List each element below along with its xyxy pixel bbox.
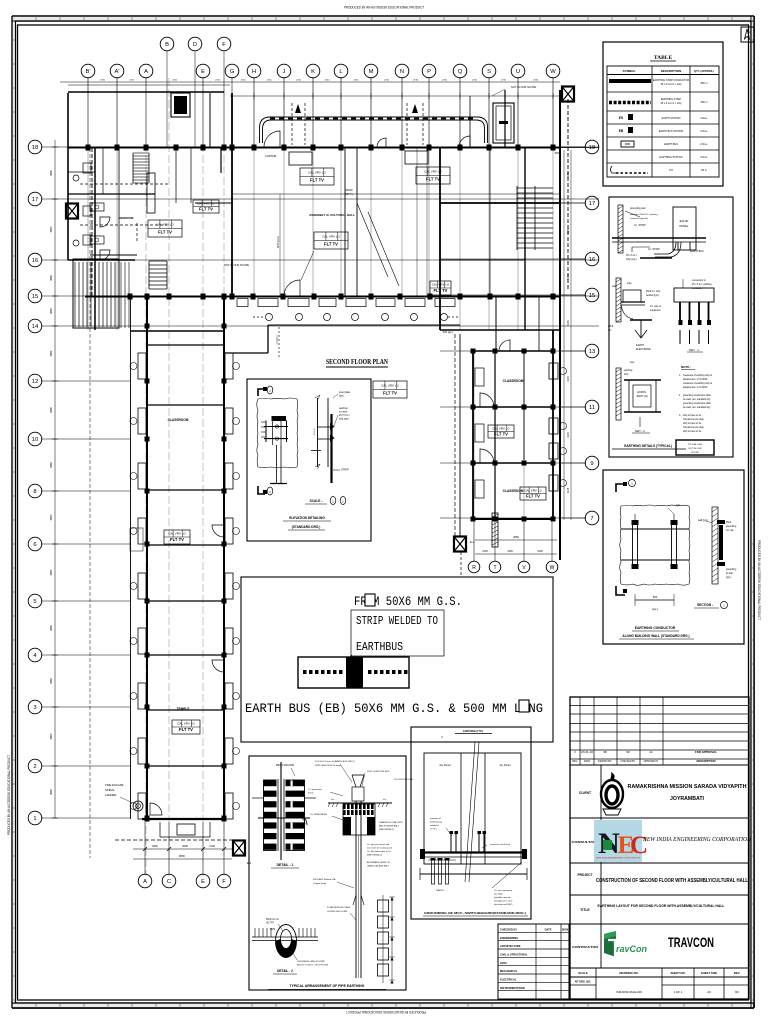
svg-text:conductor: conductor [692, 287, 702, 290]
svg-text:A': A' [115, 69, 120, 75]
svg-text:C: C [167, 879, 171, 885]
svg-text:strip (typ.): strip (typ.) [339, 418, 349, 421]
svg-text:11: 11 [589, 405, 595, 411]
svg-text:HVAC: HVAC [500, 961, 507, 965]
svg-text:2740: 2740 [533, 80, 539, 82]
svg-text:(portable concrete: (portable concrete [494, 896, 512, 899]
svg-text:W: W [550, 565, 555, 571]
svg-text:1500: 1500 [554, 152, 560, 155]
svg-text:(AP. T.): (AP. T.) [345, 193, 353, 196]
svg-text:JOINT (E): JOINT (E) [636, 394, 648, 398]
svg-text:checked as per drgs.: checked as per drgs. [683, 426, 705, 429]
svg-text:(typ.): (typ.) [339, 395, 344, 398]
svg-text:25 x 6 mm G.I. strip: 25 x 6 mm G.I. strip [661, 102, 683, 105]
svg-text:3860: 3860 [49, 569, 53, 575]
svg-text:16: 16 [32, 258, 38, 264]
svg-text:FLT TV: FLT TV [383, 391, 397, 396]
svg-text:CIVIL & STRUCTURAL: CIVIL & STRUCTURAL [500, 953, 528, 957]
svg-text:3145: 3145 [567, 376, 570, 382]
svg-text:CAL VRV LO: CAL VRV LO [308, 171, 326, 175]
svg-text:checked as per drgs.: checked as per drgs. [683, 418, 705, 421]
svg-text:(4) TYP.: (4) TYP. [266, 923, 275, 925]
svg-text:weld bar: weld bar [339, 407, 348, 410]
svg-text:[SEE DETAIL-1]: [SEE DETAIL-1] [379, 828, 394, 831]
svg-text:THICKNESS (MS) GI STRIP: THICKNESS (MS) GI STRIP [297, 961, 325, 963]
svg-text:NOT IN OUR SCOPE: NOT IN OUR SCOPE [511, 85, 536, 89]
svg-text:2740: 2740 [296, 80, 302, 82]
svg-text:DESCRIPTION: DESCRIPTION [696, 759, 715, 763]
svg-text:3860: 3860 [49, 462, 53, 468]
svg-text:strip: strip [627, 282, 632, 285]
svg-text:EARTH: EARTH [636, 344, 644, 347]
svg-text:EARTH BUS: EARTH BUS [690, 250, 704, 253]
svg-text:2740: 2740 [129, 80, 135, 82]
svg-text:ravCon: ravCon [616, 944, 648, 954]
svg-text:2740: 2740 [241, 80, 247, 82]
svg-text:CHECKED BY: CHECKED BY [500, 928, 517, 932]
svg-text:3105: 3105 [507, 550, 513, 553]
svg-text:G.I. WIRE MESH: G.I. WIRE MESH [310, 814, 327, 816]
svg-text:5: 5 [33, 599, 36, 605]
svg-text:EQUIP: EQUIP [680, 219, 689, 223]
svg-text:300 DEEP 300mm DIA: 300 DEEP 300mm DIA [313, 878, 336, 881]
svg-text:3145: 3145 [567, 487, 570, 493]
svg-text:8050: 8050 [179, 854, 185, 858]
svg-text:strip: strip [624, 373, 629, 376]
svg-text:EARTHING STRIP CONDUCTOR: EARTHING STRIP CONDUCTOR [653, 79, 689, 82]
svg-text:50x6 mm GI: 50x6 mm GI [266, 919, 279, 921]
svg-text:50 NB MEDIUM CLASS: 50 NB MEDIUM CLASS [327, 906, 351, 909]
svg-text:DRAWN BY.: DRAWN BY. [598, 760, 612, 763]
svg-text:NEW INDIA ENGINEERING CORPORAT: NEW INDIA ENGINEERING CORPORATION [642, 837, 752, 843]
svg-text:CONSTRUCTION OF SECOND FLOO: CONSTRUCTION OF SECOND FLOOR WITH ASSEMB… [596, 878, 748, 884]
svg-text:STRIP: STRIP [341, 468, 349, 472]
svg-text:R0: R0 [735, 990, 739, 994]
svg-text:H: H [252, 69, 256, 75]
svg-text:SCALE -: SCALE - [310, 499, 323, 503]
svg-text:SYMBOL: SYMBOL [623, 69, 636, 73]
svg-text:FLT TV: FLT TV [434, 288, 448, 293]
svg-text:SIGN: SIGN [562, 928, 568, 932]
svg-text:(connect to earth bus): (connect to earth bus) [490, 843, 511, 846]
svg-text:3: 3 [33, 705, 36, 711]
svg-text:(G) Panel: (G) Panel [499, 763, 511, 767]
svg-text:welded (typ.): welded (typ.) [646, 294, 659, 297]
svg-text:electrode and OBC): electrode and OBC) [494, 903, 513, 906]
svg-text:2740: 2740 [354, 80, 360, 82]
svg-text:EARTHING STRIP,: EARTHING STRIP, [661, 98, 682, 101]
svg-text:SCALE: SCALE [578, 971, 588, 975]
svg-text:3860: 3860 [49, 514, 53, 520]
svg-text:B: B [165, 42, 169, 48]
svg-text:25 X 6 G.I.: 25 X 6 G.I. [339, 415, 350, 417]
svg-text:CAL VRV LO: CAL VRV LO [492, 426, 510, 430]
svg-text:FLT TV: FLT TV [179, 727, 193, 732]
svg-text:REV.: REV. [572, 760, 578, 763]
svg-text:9: 9 [590, 461, 593, 467]
svg-text:EARTHING DETAILS (TYPICAL): EARTHING DETAILS (TYPICAL) [624, 444, 672, 448]
svg-text:2105: 2105 [482, 550, 488, 553]
svg-text:2740: 2740 [384, 80, 390, 82]
svg-text:provision of: provision of [430, 817, 441, 820]
svg-text:R: R [472, 565, 476, 571]
svg-text:EB: EB [619, 129, 624, 133]
svg-text:MESH GROUND: MESH GROUND [276, 764, 294, 767]
svg-text:EARTH STATION: EARTH STATION [662, 117, 681, 120]
svg-text:NEW INDIA ENGINEERING CORPORAT: NEW INDIA ENGINEERING CORPORATION [596, 857, 640, 860]
svg-text:insert plate: insert plate [339, 391, 351, 394]
svg-text:18: 18 [589, 145, 595, 151]
svg-text:CAL VRV LO: CAL VRV LO [168, 532, 186, 536]
svg-text:2740: 2740 [472, 80, 478, 82]
svg-text:G.I. wire to: G.I. wire to [650, 305, 662, 308]
svg-text:CAL VRV LO: CAL VRV LO [322, 235, 340, 239]
svg-text:E: E [201, 879, 205, 885]
svg-text:DESCRIPTION: DESCRIPTION [661, 69, 682, 73]
svg-text:3860: 3860 [49, 308, 53, 314]
svg-text:conductor (typical): conductor (typical) [630, 217, 648, 220]
svg-text:FLT TV: FLT TV [199, 206, 213, 211]
svg-text:PRODUCED BY AN AUTODESK EDUCAT: PRODUCED BY AN AUTODESK EDUCATIONAL PROD… [346, 1010, 426, 1015]
svg-text:25x6 G.I. strip: 25x6 G.I. strip [646, 290, 661, 293]
svg-text:17: 17 [589, 201, 595, 207]
svg-text:14: 14 [32, 324, 39, 330]
svg-text:EARTHING LAYOUT FOR SECOND FLO: EARTHING LAYOUT FOR SECOND FLOOR WITH AS… [598, 904, 725, 908]
svg-text:EARTH BUS STATION: EARTH BUS STATION [659, 130, 684, 133]
svg-text:ASSEMBLY A/ CULTURAL HALL: ASSEMBLY A/ CULTURAL HALL [309, 213, 355, 217]
svg-text:A0: A0 [707, 990, 711, 994]
svg-text:G.I. Nut bolt washer to GI: G.I. Nut bolt washer to GI [367, 850, 391, 853]
svg-text:S: S [487, 69, 491, 75]
svg-text:G.L.: G.L. [331, 799, 336, 801]
svg-text:500: 500 [653, 595, 658, 599]
svg-text:FLT TV: FLT TV [324, 242, 338, 247]
svg-text:measures of earthing strip to: measures of earthing strip to [683, 374, 713, 377]
svg-text:grounding conductors shall: grounding conductors shall [683, 402, 711, 405]
svg-text:CAL VRV LO: CAL VRV LO [524, 488, 542, 492]
svg-text:ISM-RKM-SM-E-003: ISM-RKM-SM-E-003 [616, 990, 642, 994]
svg-text:3145: 3145 [567, 320, 570, 326]
svg-text:T: T [493, 565, 496, 571]
svg-text:18: 18 [32, 145, 38, 151]
svg-text:2740: 2740 [100, 80, 106, 82]
svg-text:3145: 3145 [567, 228, 570, 234]
svg-text:CAL VRV LO: CAL VRV LO [381, 384, 399, 388]
svg-text:BEDROOM: BEDROOM [119, 216, 134, 220]
svg-text:STRIP WELDED TO: STRIP WELDED TO [356, 614, 438, 628]
svg-text:TITLE: TITLE [580, 908, 590, 912]
svg-text:be weld. acc. standard drg.: be weld. acc. standard drg. [683, 398, 711, 401]
svg-text:FLT TV: FLT TV [494, 431, 508, 436]
svg-text:strip to have to be: strip to have to be [683, 414, 702, 417]
svg-text:150 m: 150 m [700, 100, 707, 104]
svg-text:SPIRAL: SPIRAL [105, 788, 115, 792]
svg-text:FLT TV: FLT TV [526, 493, 540, 498]
svg-text:DET - 2: DET - 2 [635, 429, 645, 433]
svg-text:3860: 3860 [49, 407, 53, 413]
svg-text:Q: Q [458, 69, 463, 75]
svg-text:NT DRG. NO.: NT DRG. NO. [575, 980, 591, 984]
svg-text:EARTHING STATION: EARTHING STATION [660, 156, 683, 159]
svg-text:APPROVED BY.: APPROVED BY. [644, 760, 659, 763]
svg-text:CAL VRV LO: CAL VRV LO [177, 722, 195, 726]
svg-text:adopted acc. to IS 3043: adopted acc. to IS 3043 [683, 378, 708, 381]
svg-text:250 m: 250 m [700, 81, 707, 85]
svg-text:E: E [201, 69, 205, 75]
svg-text:GI pipe (long): GI pipe (long) [313, 883, 327, 885]
svg-text:DATE: DATE [545, 928, 552, 932]
svg-text:RAMAKRISHNA MISSION SARADA: RAMAKRISHNA MISSION SARADA VIDYAPITH [628, 784, 747, 790]
svg-text:CAL VRV LO: CAL VRV LO [424, 170, 442, 174]
svg-text:AC: AC [649, 750, 653, 754]
svg-text:4 Nos.: 4 Nos. [700, 116, 708, 120]
svg-text:PANEL: PANEL [680, 224, 689, 228]
svg-text:NOTE :: NOTE : [681, 365, 691, 369]
svg-text:A: A [143, 879, 147, 885]
svg-text:4050: 4050 [513, 535, 519, 539]
svg-text:TYPICAL DRG: TYPICAL DRG [688, 443, 703, 446]
svg-text:ELECTRICAL: ELECTRICAL [500, 978, 517, 982]
svg-text:FLT TV: FLT TV [158, 230, 172, 235]
svg-text:ES: ES [619, 116, 623, 120]
svg-text:B': B' [86, 69, 91, 75]
svg-text:at wall: at wall [726, 572, 733, 575]
svg-text:(typ.): (typ.) [726, 576, 731, 579]
svg-text:3145: 3145 [567, 172, 570, 178]
svg-text:ALTERNATE LAYER OF: ALTERNATE LAYER OF [367, 861, 390, 864]
svg-text:[SEE DETAIL-2]: [SEE DETAIL-2] [367, 854, 382, 857]
svg-text:per equip.: per equip. [494, 893, 504, 896]
svg-text:D: D [193, 42, 197, 48]
svg-text:CHARGE IN COAL DUST: CHARGE IN COAL DUST [379, 821, 404, 824]
svg-text:3105: 3105 [537, 550, 543, 553]
svg-text:N: N [748, 31, 750, 34]
svg-text:C.I. protection: C.I. protection [308, 788, 322, 791]
svg-text:GI PIPE 4500 LONG: GI PIPE 4500 LONG [327, 911, 347, 913]
svg-text:3860: 3860 [49, 625, 53, 631]
svg-text:QTY. (APPROX.): QTY. (APPROX.) [694, 69, 714, 73]
svg-text:( TYP. ): ( TYP. ) [430, 829, 437, 831]
svg-text:FLT TV: FLT TV [310, 178, 324, 183]
svg-text:3860: 3860 [49, 733, 53, 739]
svg-text:3860: 3860 [49, 350, 53, 356]
svg-text:W: W [550, 69, 556, 75]
svg-text:EARTH BUS (EB) 50X6 MM G.S. &: EARTH BUS (EB) 50X6 MM G.S. & 500 MM LON… [245, 701, 543, 716]
svg-text:N: N [400, 69, 404, 75]
svg-text:(typ.): (typ.) [652, 607, 658, 611]
svg-text:25 x 6 G.I.: 25 x 6 G.I. [626, 254, 637, 257]
svg-text:25 x 6 mm G.I. strip: 25 x 6 mm G.I. strip [661, 83, 683, 86]
svg-text:25 m: 25 m [701, 168, 707, 172]
svg-text:bolt: bolt [676, 504, 680, 507]
svg-text:3 0 0 0: 3 0 0 0 [314, 428, 316, 435]
svg-text:J: J [283, 69, 286, 75]
svg-text:G.I. flat: G.I. flat [726, 529, 734, 532]
svg-text:17: 17 [32, 197, 38, 203]
svg-text:2: 2 [33, 764, 36, 770]
svg-text:2740: 2740 [442, 80, 448, 82]
svg-text:10: 10 [32, 437, 38, 443]
svg-text:25 x 6 G.I. earthing: 25 x 6 G.I. earthing [692, 283, 712, 286]
svg-text:EARTH BUS: EARTH BUS [664, 143, 678, 146]
svg-text:to insert: to insert [339, 411, 348, 414]
svg-text:TYPICAL ARRANGEMENT OF PIPE EA: TYPICAL ARRANGEMENT OF PIPE EARTHING [290, 984, 365, 988]
svg-text:CAL VRV LO: CAL VRV LO [197, 201, 215, 205]
svg-text:PIPE LENGTH B 3.0 deep: PIPE LENGTH B 3.0 deep [315, 765, 341, 767]
svg-text:CLASSROOM: CLASSROOM [168, 418, 189, 422]
svg-text:(STANDARD DRG.): (STANDARD DRG.) [292, 525, 321, 529]
svg-text:3145: 3145 [567, 274, 570, 280]
svg-text:SCOPE: SCOPE [691, 452, 699, 454]
svg-text:M: M [369, 69, 374, 75]
svg-text:2740: 2740 [172, 80, 178, 82]
svg-text:EARTHING (TYP.): EARTHING (TYP.) [463, 730, 483, 733]
svg-text:LADDER: LADDER [105, 793, 116, 797]
svg-text:SD: SD [626, 750, 630, 754]
svg-text:JOYRAMBATI: JOYRAMBATI [670, 796, 704, 802]
svg-text:2740: 2740 [215, 80, 221, 82]
svg-text:2 Nos.: 2 Nos. [700, 142, 708, 146]
svg-text:G.I. wire separately: G.I. wire separately [494, 889, 513, 892]
svg-text:BOLTS TO SUIT + NUT HOLES: BOLTS TO SUIT + NUT HOLES [297, 965, 329, 967]
svg-text:NOT IN OUR: NOT IN OUR [689, 448, 702, 450]
svg-text:G.I. STRIP: G.I. STRIP [648, 248, 660, 251]
svg-text:TEST JUNCTION BOX: TEST JUNCTION BOX [367, 771, 390, 773]
svg-text:SHEET NO.: SHEET NO. [670, 971, 685, 975]
svg-text:2700: 2700 [209, 844, 215, 848]
svg-text:3860: 3860 [49, 226, 53, 232]
svg-text:PIT: PIT [669, 169, 673, 172]
svg-text:frame: frame [308, 792, 314, 795]
svg-text:EARTH: EARTH [436, 889, 444, 892]
svg-text:wire mesh for watering and: wire mesh for watering and [367, 847, 393, 850]
svg-text:MECHANICAL: MECHANICAL [500, 969, 518, 973]
svg-text:U: U [516, 69, 520, 75]
svg-text:2 Nos.: 2 Nos. [700, 155, 708, 159]
svg-text:ENGINEERING: ENGINEERING [500, 936, 518, 940]
svg-text:CLIENT: CLIENT [579, 791, 592, 795]
svg-text:FOR APPROVAL: FOR APPROVAL [695, 750, 717, 754]
svg-text:GROUNDING OF MCC, SWITCHBOARD(: GROUNDING OF MCC, SWITCHBOARD(STANDARD D… [424, 911, 526, 915]
svg-text:ALONG BUILDING WALL (STANDARD: ALONG BUILDING WALL (STANDARD DRG.) [622, 634, 689, 638]
svg-text:DETAIL - 2: DETAIL - 2 [277, 969, 293, 973]
svg-text:2740: 2740 [325, 80, 331, 82]
svg-text:2640: 2640 [152, 844, 158, 848]
svg-text:adopted acc. to IS 3043: adopted acc. to IS 3043 [683, 386, 708, 389]
svg-text:F: F [222, 42, 226, 48]
svg-text:DETAIL - 1: DETAIL - 1 [277, 863, 294, 867]
svg-text:1 OF 1: 1 OF 1 [674, 990, 683, 994]
svg-text:ELEVATION DETAILING: ELEVATION DETAILING [289, 516, 325, 520]
svg-text:DATE: DATE [584, 760, 591, 763]
svg-text:SECOND FLOOR PLAN: SECOND FLOOR PLAN [326, 357, 388, 366]
svg-text:strip to have to be: strip to have to be [683, 430, 702, 433]
svg-text:3860: 3860 [49, 678, 53, 684]
svg-text:grounding conductors shall: grounding conductors shall [683, 394, 711, 397]
svg-text:3860: 3860 [49, 789, 53, 795]
svg-text:3860: 3860 [49, 170, 53, 176]
svg-text:INSTRUMENTATION: INSTRUMENTATION [500, 986, 525, 990]
svg-text:grounding: grounding [726, 568, 737, 571]
svg-text:SHEET SIZE: SHEET SIZE [701, 971, 717, 975]
svg-text:2740: 2740 [267, 80, 273, 82]
svg-text:23.01.10: 23.01.10 [581, 751, 594, 754]
svg-text:SB: SB [603, 750, 607, 754]
svg-text:REV.: REV. [734, 971, 740, 975]
svg-text:FLT TV: FLT TV [170, 537, 184, 542]
svg-text:F: F [222, 879, 226, 885]
svg-text:FLT TV: FLT TV [426, 177, 440, 182]
svg-text:8: 8 [33, 489, 36, 495]
svg-text:TRAVCON: TRAVCON [668, 934, 714, 950]
svg-text:connection to: connection to [692, 279, 706, 282]
svg-text:G.I.: G.I. [608, 329, 612, 332]
svg-text:through box to each: through box to each [494, 900, 513, 903]
svg-text:P: P [427, 69, 431, 75]
svg-text:AND POWDER SALT: AND POWDER SALT [379, 825, 400, 828]
svg-text:CLASSROOM: CLASSROOM [503, 489, 524, 493]
svg-text:1 2 0 5 1: 1 2 0 5 1 [276, 335, 279, 345]
svg-text:FIRE ESCAPE: FIRE ESCAPE [105, 783, 124, 787]
svg-text:2690: 2690 [182, 844, 188, 848]
svg-text:welded to: welded to [430, 824, 440, 827]
svg-text:CAL VRV LO: CAL VRV LO [432, 283, 450, 287]
svg-text:EARTHBUS: EARTHBUS [356, 640, 403, 654]
svg-text:wire: wire [630, 361, 635, 364]
svg-text:PIPE: PIPE [270, 929, 276, 931]
svg-text:CHARCOAL AND SALT: CHARCOAL AND SALT [367, 865, 390, 868]
svg-text:CLASSROOM: CLASSROOM [503, 379, 524, 383]
svg-text:ARCHITECTURE: ARCHITECTURE [500, 944, 521, 948]
svg-text:NOT IN OUR SCOPE: NOT IN OUR SCOPE [224, 263, 249, 267]
svg-text:SECTION -: SECTION - [697, 603, 713, 607]
svg-text:500 (ap.): 500 (ap.) [443, 330, 454, 334]
svg-text:grounding pad: grounding pad [630, 207, 646, 210]
svg-text:wall (typ.): wall (typ.) [698, 519, 708, 522]
svg-text:TABLE: TABLE [654, 55, 673, 61]
svg-text:(G) Panel: (G) Panel [439, 763, 451, 767]
svg-text:2 Nos.: 2 Nos. [700, 129, 708, 133]
svg-text:earthing strip: earthing strip [430, 821, 443, 824]
svg-text:be weld. acc. standard drg.: be weld. acc. standard drg. [683, 406, 711, 409]
svg-text:2740: 2740 [501, 80, 507, 82]
svg-text:6: 6 [33, 542, 36, 548]
svg-text:15: 15 [32, 294, 38, 300]
svg-text:3860: 3860 [49, 275, 53, 281]
svg-text:25x6: 25x6 [726, 522, 732, 524]
svg-text:grounding: grounding [726, 525, 737, 528]
svg-text:PROJECT: PROJECT [577, 873, 592, 877]
svg-text:1: 1 [33, 816, 36, 822]
svg-text:TEMPLE: TEMPLE [177, 707, 190, 711]
svg-text:K: K [311, 69, 315, 75]
svg-text:strip (typ.): strip (typ.) [626, 258, 637, 261]
svg-text:G.I. pipe p/w funnel with: G.I. pipe p/w funnel with [367, 843, 390, 846]
svg-text:40 X 40 X 6 mm GI [EARTH BUS O: 40 X 40 X 6 mm GI [EARTH BUS ONLY] [315, 760, 355, 763]
svg-text:E-1: E-1 [470, 540, 475, 544]
svg-text:13: 13 [589, 349, 595, 355]
svg-text:3145: 3145 [567, 432, 570, 438]
svg-text:equipment: equipment [650, 309, 661, 312]
svg-text:G.I. STRIP: G.I. STRIP [634, 224, 646, 227]
svg-text:DET - 1: DET - 1 [689, 348, 699, 352]
svg-text:measures of earthing strip to: measures of earthing strip to [683, 382, 713, 385]
svg-text:7: 7 [590, 516, 593, 522]
svg-text:24000: 24000 [345, 188, 353, 192]
svg-text:2740: 2740 [413, 80, 419, 82]
svg-text:EXPAN.: EXPAN. [637, 390, 647, 394]
svg-text:DRAWING NO.: DRAWING NO. [619, 971, 638, 975]
